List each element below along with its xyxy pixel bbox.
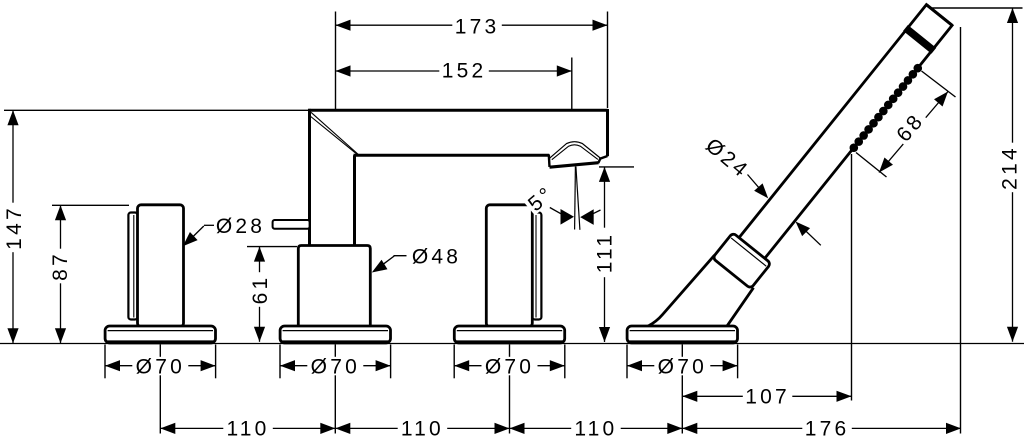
extension lines top bbox=[335, 12, 337, 111]
water stream lines 5 degree bbox=[574, 167, 577, 230]
svg-text:214: 214 bbox=[998, 145, 1021, 190]
hand shower holder collar bbox=[712, 233, 771, 289]
dimension 61 bbox=[247, 246, 297, 248]
centerline ticks bbox=[159, 345, 161, 434]
svg-text:152: 152 bbox=[442, 59, 487, 82]
hand shower spray nozzles bbox=[848, 142, 860, 154]
hand shower cone bbox=[648, 257, 752, 327]
handle valve left bbox=[128, 213, 137, 320]
deck reference line bbox=[0, 343, 1024, 345]
label diameter 48 bbox=[409, 245, 463, 268]
extension verticals shower bbox=[851, 154, 853, 401]
reference line spout height bbox=[4, 109, 309, 111]
dimension 87 bbox=[52, 204, 129, 206]
svg-text:176: 176 bbox=[805, 418, 850, 441]
svg-text:Ø28: Ø28 bbox=[216, 215, 265, 238]
svg-text:Ø70: Ø70 bbox=[485, 355, 534, 378]
spout arm right edge bbox=[606, 109, 609, 156]
dimension 152 bbox=[336, 70, 572, 72]
svg-text:110: 110 bbox=[226, 418, 269, 441]
spout pipe left edge bbox=[308, 109, 311, 246]
spout side tab bbox=[273, 220, 310, 229]
hand shower dark band bbox=[903, 25, 936, 54]
svg-text:147: 147 bbox=[3, 205, 26, 250]
svg-text:110: 110 bbox=[401, 418, 444, 441]
spout base cylinder bbox=[298, 246, 370, 327]
leader arrow to wand bbox=[800, 226, 821, 246]
svg-text:87: 87 bbox=[49, 251, 72, 281]
svg-text:111: 111 bbox=[593, 232, 616, 274]
spout body bbox=[310, 110, 608, 245]
dimension 147 left bbox=[12, 110, 14, 343]
svg-text:61: 61 bbox=[249, 275, 272, 305]
svg-text:107: 107 bbox=[745, 386, 790, 409]
spout pipe right edge bbox=[353, 155, 356, 245]
base escutcheon hand shower bbox=[627, 326, 737, 343]
label diameter 24 bbox=[699, 132, 755, 184]
dimension 107 bbox=[682, 395, 851, 397]
spout arm top edge bbox=[308, 109, 607, 112]
svg-text:110: 110 bbox=[574, 418, 617, 441]
spout mouthpiece bbox=[549, 142, 600, 159]
dimension 111 bbox=[599, 166, 634, 168]
base escutcheon spout bbox=[280, 326, 390, 343]
diameter 70 dimensions bbox=[104, 345, 106, 379]
spout arm bottom edge bbox=[354, 154, 550, 157]
base escutcheon left handle bbox=[105, 326, 215, 343]
handle valve right bbox=[532, 213, 541, 320]
dimension chain 110 110 110 176 bbox=[160, 427, 961, 429]
hand shower wand bbox=[731, 4, 955, 269]
svg-text:Ø70: Ø70 bbox=[658, 355, 707, 378]
svg-text:173: 173 bbox=[455, 16, 500, 39]
dimension 5 degree arrows bbox=[550, 208, 561, 214]
spout elbow chamfer bbox=[311, 112, 359, 155]
svg-text:Ø70: Ø70 bbox=[311, 355, 360, 378]
dimension 173 top bbox=[336, 24, 608, 26]
svg-text:Ø48: Ø48 bbox=[412, 245, 461, 268]
base escutcheon right handle bbox=[454, 326, 564, 343]
dimension 214 right bbox=[932, 7, 1023, 9]
label diameter 28 bbox=[213, 215, 267, 238]
dimension 68 along sprayface bbox=[856, 153, 887, 178]
svg-text:Ø70: Ø70 bbox=[136, 355, 185, 378]
